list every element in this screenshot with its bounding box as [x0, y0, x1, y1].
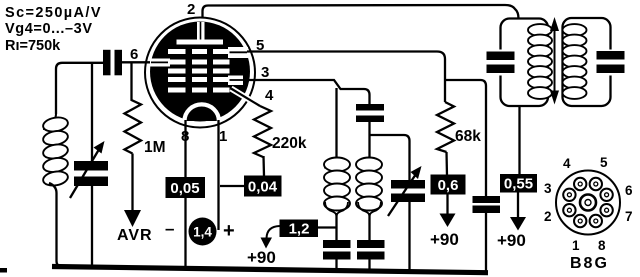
wire anode pin 2 to transformer T2 [203, 5, 519, 19]
resistor R1 1M grid leak [125, 63, 142, 154]
resistor R3 68k [437, 102, 454, 152]
transformer T2 primary winding L4 [501, 19, 553, 107]
socket pin 1 [574, 215, 586, 227]
capacitor C7 [357, 240, 385, 260]
measurement box 1,2 [280, 220, 319, 238]
wire resistor R3 to box 0,6 [445, 152, 448, 176]
pin 4 lead channel [231, 89, 260, 107]
electrode disc [150, 22, 250, 122]
svg-text:1: 1 [572, 238, 580, 253]
svg-text:7: 7 [625, 209, 633, 224]
variable capacitor C5 [388, 166, 425, 216]
socket pin 4 [574, 178, 586, 190]
wire box 1,2 to coil L2 bottom [318, 226, 337, 228]
wire grid input from coil to capacitor C1 [56, 63, 103, 114]
cathode dome [185, 104, 219, 121]
resistor R2 220k [254, 106, 271, 176]
pin 5 channel [228, 47, 248, 58]
svg-text:1M: 1M [144, 139, 166, 156]
wire capacitor C4 to coil L3 with branch [368, 122, 370, 158]
svg-text:6: 6 [625, 183, 633, 198]
svg-text:2: 2 [544, 209, 552, 224]
wire screen branch to capacitor C8 [445, 80, 486, 197]
socket pin 6 [600, 189, 612, 201]
svg-text:AVR: AVR [117, 227, 153, 244]
arrow from box 0,6 to +90 [446, 195, 448, 217]
wire variable capacitor C2 to ground bus [91, 186, 93, 269]
wire variable capacitor C5 to ground bus [408, 202, 410, 273]
anode plate bar [177, 40, 224, 45]
socket pin 7 [600, 204, 612, 216]
pin 3 channel [228, 76, 243, 86]
wire coil L2 to capacitor C6 [335, 213, 337, 241]
svg-text:Sc=250µA/V: Sc=250µA/V [5, 5, 102, 21]
svg-text:0,05: 0,05 [170, 180, 199, 197]
svg-text:4: 4 [563, 156, 571, 171]
svg-text:–: – [165, 219, 174, 238]
measurement box 0,55 [500, 174, 537, 193]
svg-text:+90: +90 [497, 231, 526, 250]
svg-text:220k: 220k [272, 135, 307, 152]
measurement box 0,05 [166, 177, 206, 198]
grid bars column 1 [168, 49, 186, 93]
wire capacitor C6 to ground bus [335, 260, 337, 272]
wire junction to coil L2 [335, 88, 337, 158]
pin 2 anode slot [197, 22, 205, 40]
inductor L2 [324, 156, 350, 216]
transformer T2 secondary winding L5 [563, 18, 611, 106]
arrow from box 1,2 to +90 [267, 226, 280, 238]
wire pin 8 to ground bus through 0,05 [184, 120, 186, 270]
svg-text:5: 5 [600, 155, 608, 170]
variable capacitor C2 tuning [70, 141, 108, 198]
svg-text:2: 2 [187, 1, 195, 18]
svg-text:0,55: 0,55 [504, 176, 533, 193]
wire pin 1 to meter [217, 120, 219, 230]
svg-text:68k: 68k [455, 128, 481, 145]
ground bus [52, 267, 488, 273]
capacitor C1 grid coupling [103, 50, 122, 76]
svg-text:B8G: B8G [570, 255, 609, 272]
measurement box 0,04 [244, 176, 282, 197]
tube socket B8G diagram [556, 171, 620, 235]
meter M1 1,4 [189, 218, 217, 246]
svg-text:1,4: 1,4 [193, 225, 212, 240]
wire coil L1 bottom to ground bus [49, 183, 62, 267]
svg-text:Vg4=0...–3V: Vg4=0...–3V [5, 21, 93, 37]
arrow to AVR [124, 210, 141, 227]
svg-text:+: + [223, 220, 235, 242]
capacitor C6 [323, 240, 351, 260]
arrow from box 0,55 to +90 [517, 193, 519, 219]
svg-text:+90: +90 [247, 248, 276, 267]
wire link pin1 line to box 0,04 [220, 185, 245, 187]
svg-text:3: 3 [261, 64, 269, 81]
svg-text:+90: +90 [430, 230, 459, 249]
svg-text:3: 3 [544, 181, 552, 196]
grid bars column 2 [192, 49, 207, 93]
wire resistor R1 to AVR arrow [131, 154, 133, 214]
wire capacitor C1 to tube grid pin 6 [122, 61, 152, 63]
svg-text:4: 4 [265, 87, 274, 104]
socket pin 2 [563, 204, 575, 216]
svg-text:Rı=750k: Rı=750k [5, 38, 61, 54]
wire pin 3 to IF transformer T1 [244, 80, 370, 104]
svg-text:1: 1 [219, 128, 227, 145]
capacitor C4 [356, 104, 384, 122]
socket pin 8 [590, 215, 602, 227]
wire capacitor C7 to ground bus [368, 260, 370, 272]
vacuum tube U1 heptode [145, 18, 260, 128]
svg-text:6: 6 [130, 46, 138, 63]
socket pin 3 [563, 189, 575, 201]
svg-text:0,04: 0,04 [248, 179, 278, 196]
inductor L1 antenna coil [42, 114, 69, 187]
wire tap to variable capacitor C2 [91, 63, 93, 161]
socket pin 5 [590, 178, 602, 190]
tuning arrow of transformer T2 [550, 17, 559, 105]
wire pin 5 to resistor R3 [247, 52, 445, 103]
wire branch to variable capacitor C5 [370, 135, 410, 180]
capacitor C10 across secondary [597, 50, 625, 76]
envelope [145, 18, 255, 128]
capacitor C8 [473, 196, 501, 213]
pin 6 channel [150, 59, 170, 67]
grid bars column 3 [213, 49, 230, 93]
measurement box 0,6 [431, 175, 466, 195]
svg-text:1,2: 1,2 [289, 221, 310, 238]
svg-text:8: 8 [598, 238, 606, 253]
svg-text:0,6: 0,6 [438, 177, 459, 194]
wire coil L3 to capacitor C7 [368, 213, 370, 241]
scan edge mark [0, 268, 7, 273]
inductor L3 [356, 156, 382, 216]
wire capacitor C8 to ground bus [485, 213, 487, 273]
capacitor C9 across primary [487, 50, 515, 76]
wire primary bottom to box 0,55 [518, 105, 520, 175]
